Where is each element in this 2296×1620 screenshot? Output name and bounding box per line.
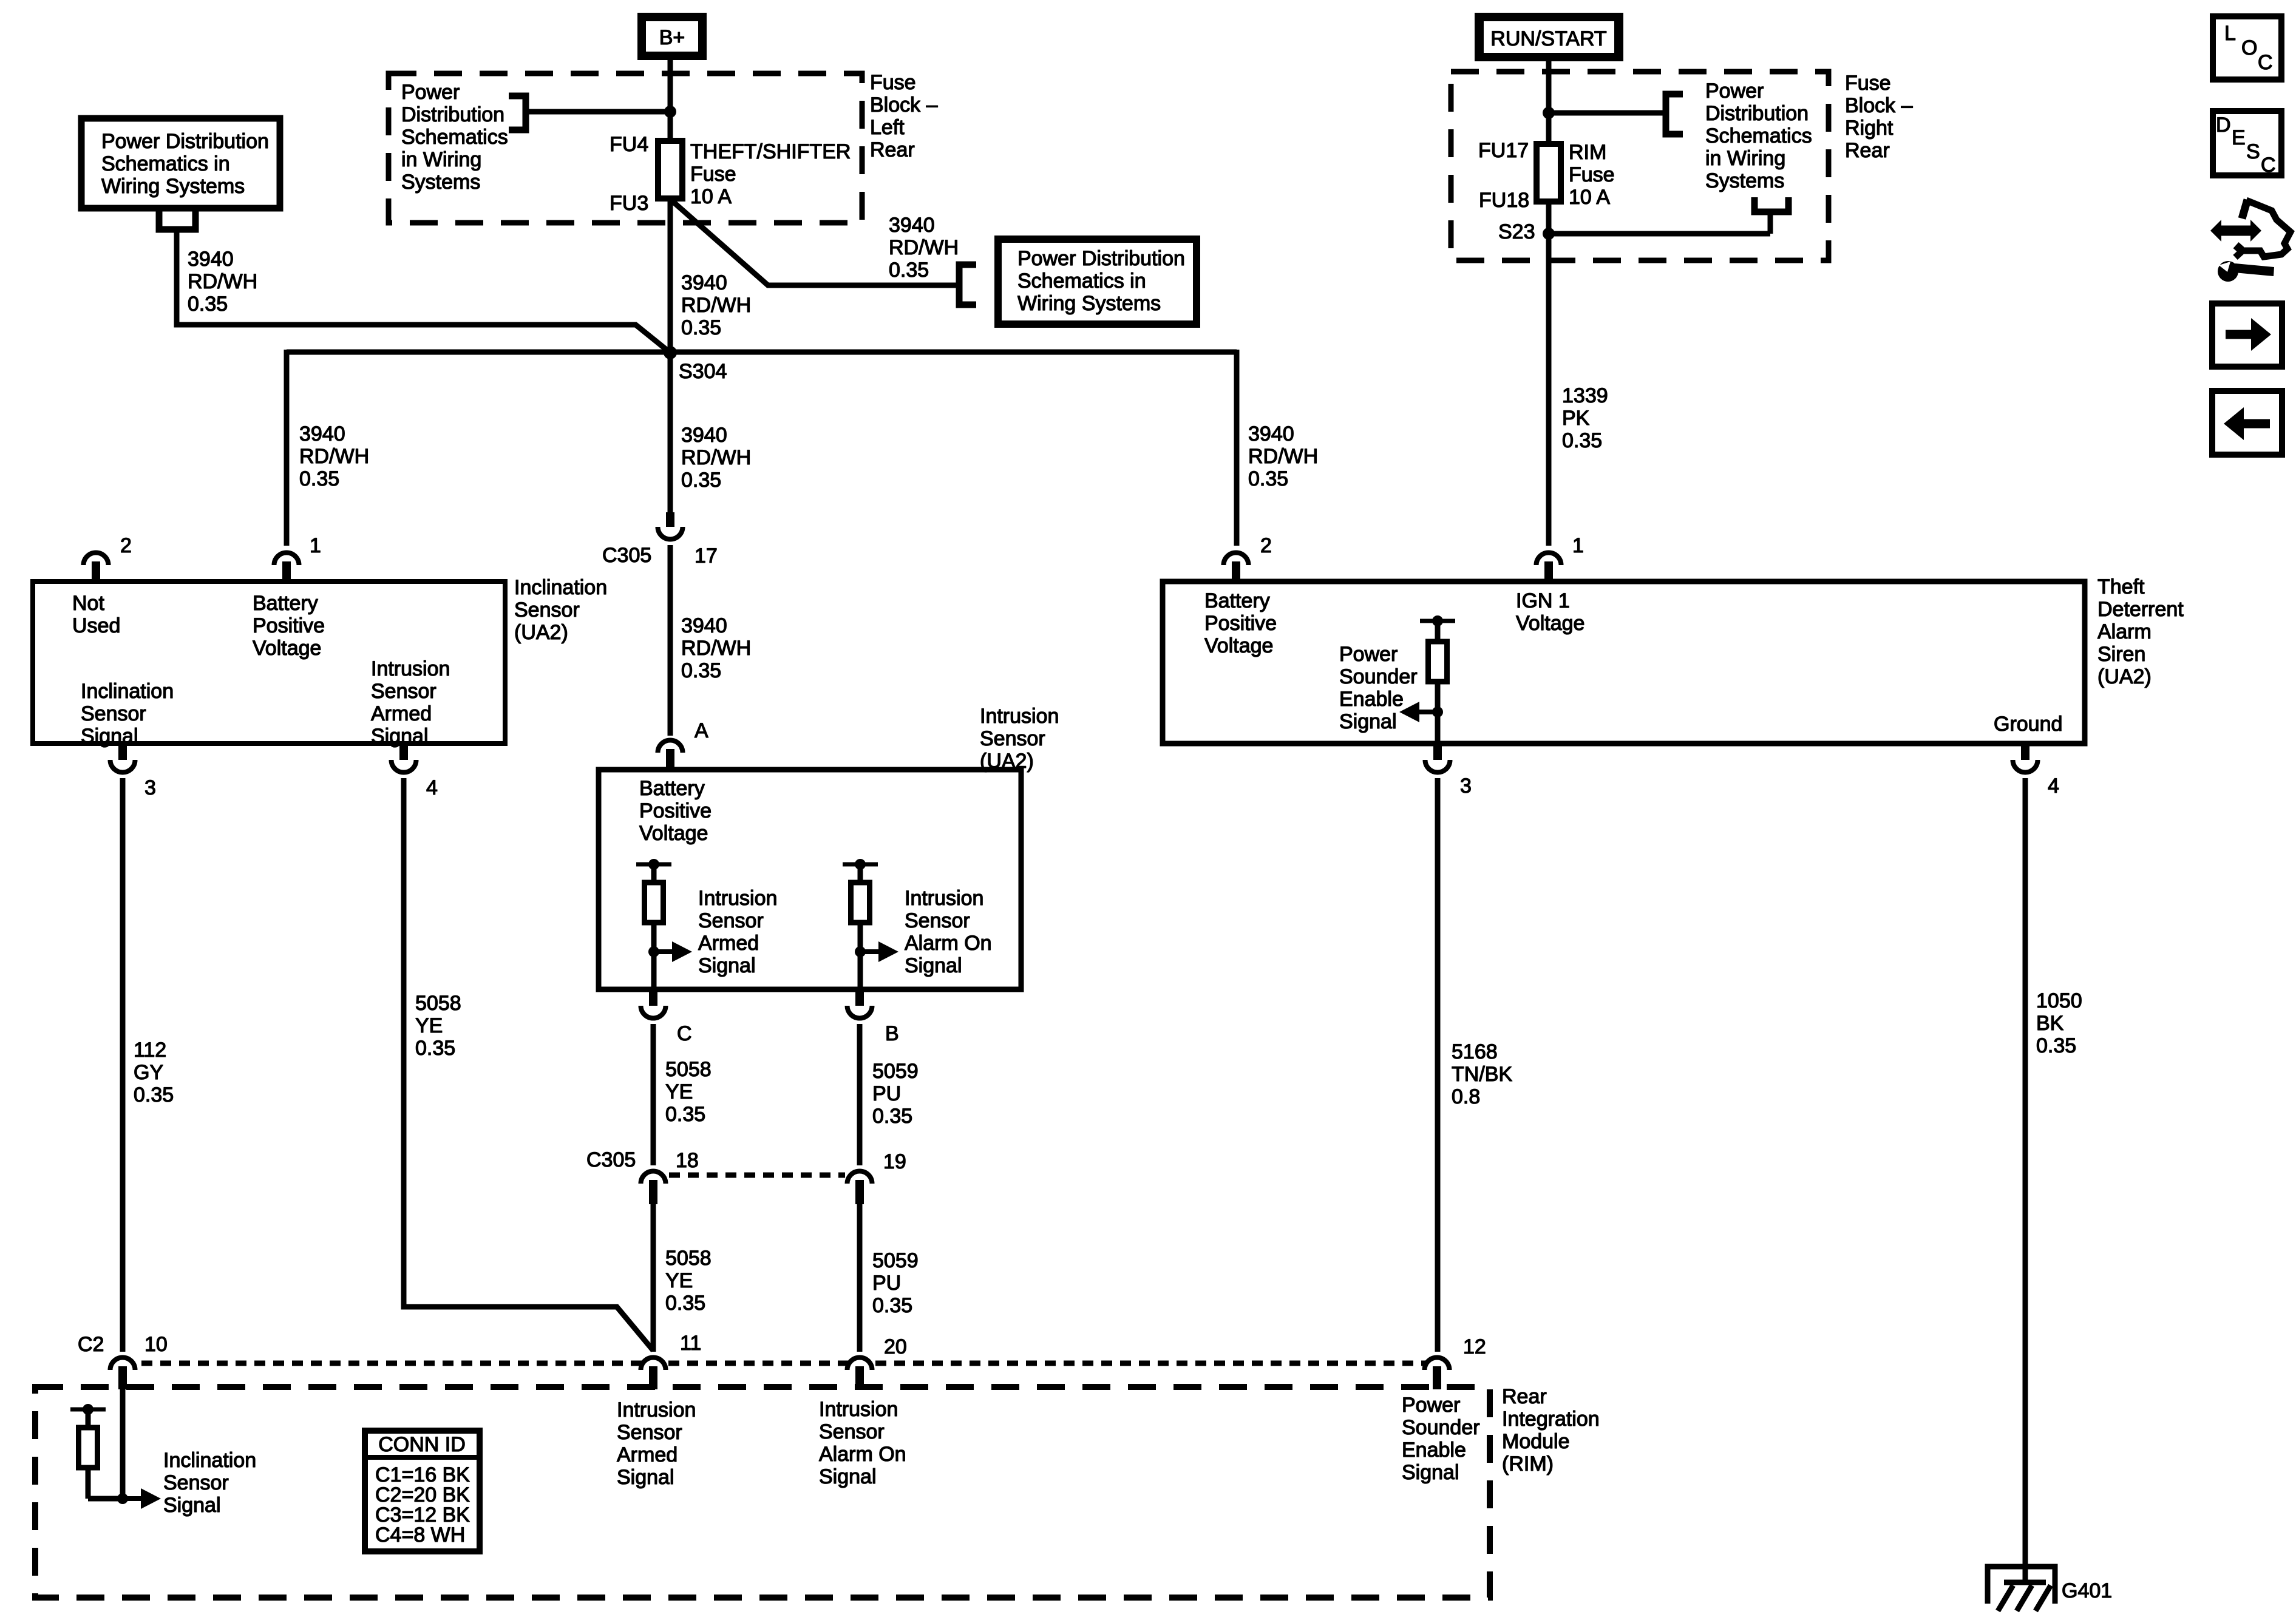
svg-text:C4=8 WH: C4=8 WH <box>375 1523 465 1547</box>
box Intrusion Sensor <box>599 770 1021 989</box>
junction + arrow inclination sensor signal <box>117 1488 161 1509</box>
connector pin 2 (inclination sensor, not used) <box>84 552 109 581</box>
label Power Sounder Enable Signal (siren box) <box>1339 643 1418 733</box>
label 5058 YE 0.35 (below C305-18) <box>665 1247 712 1315</box>
svg-text:5058: 5058 <box>665 1058 712 1081</box>
label 3940 RD/WH 0.35 (diagonal to mid box) <box>889 214 959 282</box>
resistor inclination sensor (RIM) <box>70 1404 123 1499</box>
dashed connector line C305 18-19 <box>669 1173 845 1178</box>
svg-text:FU17: FU17 <box>1478 139 1529 162</box>
svg-text:Sounder: Sounder <box>1402 1416 1480 1439</box>
svg-text:G401: G401 <box>2062 1579 2112 1602</box>
svg-text:S304: S304 <box>679 360 727 383</box>
label RIM Fuse 10 A <box>1569 141 1615 209</box>
label 1050 BK 0.35 <box>2036 989 2082 1057</box>
connector RIM pin 11 <box>641 1358 666 1390</box>
svg-text:3940: 3940 <box>681 271 727 294</box>
wire fuse FU3 to S304 <box>668 198 673 353</box>
svg-text:20: 20 <box>884 1335 907 1358</box>
svg-text:RD/WH: RD/WH <box>681 446 751 469</box>
svg-text:0.35: 0.35 <box>134 1083 174 1107</box>
fuse block left rear (dashed outline) <box>389 73 862 223</box>
svg-text:RIM: RIM <box>1569 141 1606 164</box>
svg-text:Armed: Armed <box>371 702 432 725</box>
svg-text:in Wiring: in Wiring <box>401 148 481 171</box>
svg-text:Sensor: Sensor <box>163 1471 229 1494</box>
svg-text:Alarm On: Alarm On <box>819 1443 906 1466</box>
label Fuse Block - Left Rear <box>870 71 938 161</box>
label 3940 RD/WH 0.35 (top-left wire) <box>188 248 257 316</box>
node RUN/START terminal <box>1475 13 1623 61</box>
svg-text:Theft: Theft <box>2097 575 2145 598</box>
svg-text:3940: 3940 <box>188 248 234 271</box>
svg-text:C2: C2 <box>78 1333 104 1356</box>
svg-text:L: L <box>2224 22 2236 45</box>
svg-text:GY: GY <box>134 1061 163 1084</box>
svg-text:17: 17 <box>695 544 718 568</box>
fuse FU4/FU3 THEFT/SHIFTER 10A <box>658 141 682 198</box>
svg-text:Signal: Signal <box>819 1465 877 1488</box>
connector C305 pin 18 <box>641 1171 666 1205</box>
svg-text:RD/WH: RD/WH <box>889 236 959 259</box>
node B+ terminal <box>637 13 707 60</box>
label Intrusion Sensor (UA2) <box>980 705 1059 773</box>
label Theft Deterrent Alarm Siren (UA2) <box>2097 575 2184 688</box>
connector pin C (intrusion sensor) <box>641 992 666 1018</box>
connector RIM pin 20 <box>847 1358 872 1390</box>
svg-text:Wiring Systems: Wiring Systems <box>101 175 245 198</box>
label Intrusion Sensor Alarm On Signal (RIM) <box>819 1398 906 1488</box>
svg-text:2: 2 <box>120 534 132 557</box>
label 3940 RD/WH 0.35 (above S304) <box>681 271 751 339</box>
svg-text:Intrusion: Intrusion <box>617 1398 696 1422</box>
svg-text:Sounder: Sounder <box>1339 665 1418 688</box>
svg-text:Sensor: Sensor <box>81 702 146 725</box>
svg-text:Power: Power <box>1705 80 1764 103</box>
wire rail down to siren pin 2 <box>1234 350 1240 546</box>
label 1339 PK 0.35 <box>1562 384 1608 452</box>
svg-text:Sensor: Sensor <box>514 598 580 622</box>
connector pin 4 (inclination sensor) <box>391 746 416 773</box>
svg-text:Distribution: Distribution <box>401 103 504 126</box>
svg-text:A: A <box>695 719 708 742</box>
label Power Distribution Schematics in Wiring Systems (left fuse block) <box>401 81 508 194</box>
svg-text:in Wiring: in Wiring <box>1705 147 1785 170</box>
svg-text:Block –: Block – <box>870 93 938 117</box>
bracket to mid box <box>959 265 976 305</box>
svg-text:RD/WH: RD/WH <box>299 445 369 468</box>
svg-text:C: C <box>677 1022 692 1045</box>
svg-text:Alarm: Alarm <box>2097 620 2152 643</box>
label 3940 RD/WH 0.35 (left drop) <box>299 422 369 490</box>
icon vehicle with wrench <box>2210 200 2291 282</box>
label Battery Positive Voltage (siren) <box>1204 589 1277 657</box>
resistor power sounder <box>1420 615 1455 712</box>
svg-text:Sensor: Sensor <box>819 1420 885 1443</box>
svg-text:TN/BK: TN/BK <box>1452 1063 1512 1086</box>
svg-text:FU4: FU4 <box>610 133 648 156</box>
svg-text:Battery: Battery <box>253 592 318 615</box>
svg-text:0.35: 0.35 <box>872 1105 912 1128</box>
svg-text:O: O <box>2241 36 2257 59</box>
wire pin 10 into RIM <box>120 1387 126 1499</box>
svg-text:Battery: Battery <box>639 777 705 800</box>
bracket under top-left box <box>159 211 195 229</box>
svg-text:Positive: Positive <box>1204 612 1277 635</box>
svg-text:Left: Left <box>870 116 905 139</box>
svg-text:0.35: 0.35 <box>2036 1034 2076 1057</box>
wire pin 3 inclination to C2 pin 10 <box>120 778 126 1352</box>
svg-text:Inclination: Inclination <box>81 680 174 703</box>
svg-text:E: E <box>2232 126 2246 149</box>
label 5058 YE 0.35 (above C305-18) <box>665 1058 712 1126</box>
svg-text:Power: Power <box>401 81 460 104</box>
svg-text:0.35: 0.35 <box>872 1294 912 1317</box>
svg-text:3940: 3940 <box>889 214 935 237</box>
svg-text:(UA2): (UA2) <box>514 621 568 644</box>
label Power Sounder Enable Signal (RIM) <box>1402 1394 1480 1484</box>
wire to power distribution bracket (left fuse block) <box>526 109 670 115</box>
box Inclination Sensor <box>33 581 505 744</box>
connector C305 pin 19 <box>847 1171 872 1205</box>
svg-text:Power Distribution: Power Distribution <box>101 130 269 153</box>
resistor intrusion alarm on <box>843 859 878 952</box>
svg-text:BK: BK <box>2036 1012 2064 1035</box>
svg-text:4: 4 <box>2048 774 2059 798</box>
svg-text:0.35: 0.35 <box>889 259 929 282</box>
svg-text:Armed: Armed <box>617 1443 678 1466</box>
junction + arrow intrusion alarm on signal <box>855 941 898 962</box>
svg-text:Alarm On: Alarm On <box>905 932 992 955</box>
svg-text:Deterrent: Deterrent <box>2097 598 2184 621</box>
svg-text:0.35: 0.35 <box>681 659 721 682</box>
svg-text:Signal: Signal <box>81 725 138 748</box>
svg-text:C305: C305 <box>602 544 651 567</box>
svg-text:Positive: Positive <box>639 799 712 822</box>
wire to bracket (right fuse block) <box>1549 110 1666 116</box>
svg-text:Rear: Rear <box>1845 139 1890 162</box>
svg-text:YE: YE <box>665 1269 693 1292</box>
svg-text:S: S <box>2246 140 2260 163</box>
svg-text:FU3: FU3 <box>610 192 648 215</box>
connector pin A (intrusion sensor) <box>658 741 683 771</box>
bracket to Power Distribution text (left fuse block) <box>509 96 526 130</box>
bracket to Power Distribution text (right fuse block) <box>1666 94 1683 134</box>
connector pin 2 (siren) <box>1223 552 1248 581</box>
svg-text:Power: Power <box>1339 643 1398 666</box>
svg-text:Intrusion: Intrusion <box>819 1398 898 1421</box>
svg-text:Voltage: Voltage <box>1516 612 1584 635</box>
bracket under right fuse block text <box>1754 197 1788 212</box>
label Intrusion Sensor Armed Signal (intrusion box) <box>698 887 777 977</box>
connector pin 3 (inclination sensor) <box>110 746 135 773</box>
box Rear Integration Module (dashed) <box>35 1387 1490 1598</box>
wire B+ to fuse FU4 <box>668 60 673 141</box>
svg-text:C: C <box>2261 154 2276 177</box>
svg-text:5058: 5058 <box>665 1247 712 1270</box>
label Rear Integration Module (RIM) <box>1502 1385 1600 1476</box>
ground G401 <box>1988 1567 2055 1611</box>
label IGN 1 Voltage (siren) <box>1516 589 1584 635</box>
node S23 <box>1543 228 1555 240</box>
svg-text:5059: 5059 <box>872 1249 919 1272</box>
svg-text:RD/WH: RD/WH <box>681 637 751 660</box>
svg-text:10 A: 10 A <box>1569 186 1610 209</box>
svg-text:1: 1 <box>310 534 321 557</box>
wire from top-left box down and to S304 <box>177 229 670 353</box>
svg-text:Schematics: Schematics <box>1705 124 1812 147</box>
icon arrow right <box>2212 303 2282 367</box>
label 5059 PU 0.35 (above pin 19) <box>872 1060 919 1128</box>
connector pin B (intrusion sensor) <box>847 992 872 1018</box>
wire pin 19 to RIM pin 20 <box>857 1202 863 1352</box>
wire rail down to inclination pin 1 <box>284 350 290 546</box>
svg-text:5058: 5058 <box>415 992 461 1015</box>
label Fuse Block - Right Rear <box>1845 72 1913 162</box>
svg-text:0.35: 0.35 <box>665 1103 705 1126</box>
label Not Used <box>72 592 120 637</box>
fuse FU17/FU18 RIM 10A <box>1537 144 1561 202</box>
connector RIM pin 12 <box>1425 1358 1450 1390</box>
svg-text:B: B <box>885 1022 899 1045</box>
wire pin 4 inclination to RIM pin 11 (jog) <box>404 778 653 1351</box>
label Intrusion Sensor Armed Signal (inclination box) <box>371 657 450 748</box>
wire down to pin C <box>651 952 657 988</box>
svg-text:C305: C305 <box>586 1148 636 1171</box>
svg-text:RUN/START: RUN/START <box>1490 27 1606 50</box>
svg-text:Fuse: Fuse <box>1569 163 1615 186</box>
wire main rail through S304 <box>287 350 1237 355</box>
svg-text:10 A: 10 A <box>690 185 732 208</box>
connector pin 1 (siren) <box>1537 552 1561 581</box>
label Intrusion Sensor Alarm On Signal (intrusion box) <box>905 887 992 977</box>
label Inclination Sensor Signal (inclination box) <box>81 680 174 748</box>
resistor intrusion armed <box>636 859 671 952</box>
svg-text:Block –: Block – <box>1845 94 1913 117</box>
svg-text:Positive: Positive <box>253 614 325 637</box>
svg-text:3940: 3940 <box>681 614 727 637</box>
svg-text:PU: PU <box>872 1082 901 1105</box>
box Theft Deterrent Alarm Siren <box>1163 581 2085 744</box>
svg-text:Right: Right <box>1845 117 1894 140</box>
svg-text:Fuse: Fuse <box>1845 72 1891 95</box>
svg-text:D: D <box>2216 114 2231 137</box>
label Power Distribution Schematics in Wiring Systems (right fuse block) <box>1705 80 1812 192</box>
node S304 <box>664 346 677 359</box>
svg-text:3: 3 <box>1460 774 1472 798</box>
svg-text:Inclination: Inclination <box>514 576 607 599</box>
svg-text:2: 2 <box>1260 534 1272 557</box>
svg-text:B+: B+ <box>659 26 685 49</box>
svg-text:Systems: Systems <box>401 171 480 194</box>
svg-text:Fuse: Fuse <box>870 71 916 94</box>
connector pin 1 (inclination sensor) <box>274 552 299 581</box>
svg-text:Sensor: Sensor <box>980 727 1045 750</box>
wire down to siren pin 3 <box>1435 712 1441 741</box>
svg-text:Voltage: Voltage <box>1204 634 1273 657</box>
svg-text:0.35: 0.35 <box>1248 467 1288 490</box>
svg-text:Not: Not <box>72 592 104 615</box>
svg-text:Integration: Integration <box>1502 1408 1600 1431</box>
CONN ID table <box>365 1431 480 1551</box>
svg-text:1: 1 <box>1572 534 1584 557</box>
svg-text:0.35: 0.35 <box>415 1037 455 1060</box>
svg-text:Enable: Enable <box>1402 1439 1466 1462</box>
svg-text:YE: YE <box>665 1080 693 1103</box>
svg-text:Used: Used <box>72 614 120 637</box>
svg-text:IGN 1: IGN 1 <box>1516 589 1570 612</box>
label 5168 TN/BK 0.8 <box>1452 1040 1512 1108</box>
connector C305 pin 17 <box>658 512 683 539</box>
svg-text:0.35: 0.35 <box>681 469 721 492</box>
svg-text:Signal: Signal <box>905 954 962 977</box>
wire C305-17 to intrusion sensor pin A <box>668 545 673 736</box>
svg-text:Signal: Signal <box>1339 710 1397 733</box>
svg-text:PU: PU <box>872 1272 901 1295</box>
svg-text:Wiring Systems: Wiring Systems <box>1017 292 1161 315</box>
svg-text:0.35: 0.35 <box>665 1292 705 1315</box>
svg-text:Rear: Rear <box>870 138 915 161</box>
svg-text:Signal: Signal <box>1402 1461 1459 1484</box>
label 5059 PU 0.35 (below pin 19) <box>872 1249 919 1317</box>
box Power Distribution Schematics in Wiring Systems (mid) <box>998 239 1197 324</box>
wire down to pin B <box>858 952 863 988</box>
wire S304 down to C305 pin 17 <box>668 353 673 512</box>
wire S23 <box>1549 231 1770 237</box>
svg-text:RD/WH: RD/WH <box>681 294 751 317</box>
svg-text:THEFT/SHIFTER: THEFT/SHIFTER <box>690 140 851 163</box>
svg-text:Fuse: Fuse <box>690 163 736 186</box>
svg-text:Siren: Siren <box>2097 643 2145 666</box>
wire pin B to C305 pin 19 <box>857 1024 863 1165</box>
label Inclination Sensor Signal (RIM) <box>163 1449 256 1517</box>
svg-text:19: 19 <box>883 1150 906 1173</box>
label Intrusion Sensor Armed Signal (RIM) <box>617 1398 696 1489</box>
fuse block right rear (dashed outline) <box>1451 72 1829 260</box>
svg-text:3: 3 <box>144 776 156 799</box>
svg-text:Voltage: Voltage <box>639 822 708 845</box>
label 3940 RD/WH 0.35 (right drop) <box>1248 422 1318 490</box>
svg-text:(UA2): (UA2) <box>2097 665 2152 688</box>
svg-text:0.35: 0.35 <box>1562 429 1602 452</box>
svg-text:Distribution: Distribution <box>1705 102 1809 125</box>
svg-text:(RIM): (RIM) <box>1502 1452 1554 1476</box>
svg-text:12: 12 <box>1463 1335 1486 1358</box>
icon LOC <box>2213 16 2281 80</box>
svg-text:Signal: Signal <box>698 954 756 977</box>
svg-text:Intrusion: Intrusion <box>980 705 1059 728</box>
label 3940 RD/WH 0.35 (below S304) <box>681 424 751 492</box>
label 3940 RD/WH 0.35 (to pin A) <box>681 614 751 682</box>
wire RUN/START down to fuse FU17 <box>1546 61 1552 144</box>
svg-text:Inclination: Inclination <box>163 1449 256 1472</box>
svg-text:YE: YE <box>415 1014 443 1037</box>
svg-text:112: 112 <box>134 1039 166 1062</box>
svg-text:Module: Module <box>1502 1430 1570 1453</box>
svg-text:Signal: Signal <box>617 1466 674 1489</box>
svg-text:Armed: Armed <box>698 932 759 955</box>
svg-text:1339: 1339 <box>1562 384 1608 407</box>
svg-text:11: 11 <box>680 1332 701 1355</box>
junction + arrow intrusion armed signal <box>648 941 692 962</box>
label Inclination Sensor (UA2) <box>514 576 607 644</box>
svg-text:10: 10 <box>144 1333 168 1356</box>
junction + arrow power sounder enable signal <box>1399 702 1443 722</box>
icon arrow left <box>2212 391 2282 455</box>
wire siren pin 4 to G401 <box>2023 778 2028 1582</box>
svg-text:RD/WH: RD/WH <box>188 270 257 293</box>
svg-text:Ground: Ground <box>1994 713 2062 736</box>
svg-text:0.35: 0.35 <box>681 316 721 339</box>
svg-text:S23: S23 <box>1498 220 1535 243</box>
label Battery Positive Voltage (intrusion) <box>639 777 712 845</box>
svg-text:Sensor: Sensor <box>371 680 436 703</box>
svg-text:RD/WH: RD/WH <box>1248 445 1318 468</box>
svg-text:PK: PK <box>1562 407 1590 430</box>
wire pin C to C305 pin 18 <box>651 1024 656 1165</box>
svg-text:18: 18 <box>676 1149 699 1172</box>
junction dot above fuse <box>664 106 676 118</box>
svg-text:Battery: Battery <box>1204 589 1270 612</box>
svg-text:Systems: Systems <box>1705 169 1784 192</box>
svg-text:0.35: 0.35 <box>188 293 228 316</box>
svg-text:Intrusion: Intrusion <box>698 887 777 910</box>
svg-text:5059: 5059 <box>872 1060 919 1083</box>
wire FU3 to Power Distribution Schematics (mid box) <box>671 200 959 285</box>
svg-text:Intrusion: Intrusion <box>371 657 450 680</box>
dotted connector row C2 <box>123 1361 1437 1366</box>
svg-text:3940: 3940 <box>1248 422 1294 446</box>
svg-text:5168: 5168 <box>1452 1040 1498 1063</box>
icon DESC <box>2213 111 2281 177</box>
svg-text:Sensor: Sensor <box>698 909 764 932</box>
svg-text:(UA2): (UA2) <box>980 750 1034 773</box>
label 112 GY 0.35 <box>134 1039 174 1107</box>
svg-text:1050: 1050 <box>2036 989 2082 1012</box>
svg-text:3940: 3940 <box>299 422 345 446</box>
svg-text:0.35: 0.35 <box>299 467 339 490</box>
svg-text:Voltage: Voltage <box>253 637 321 660</box>
svg-text:Sensor: Sensor <box>617 1421 682 1444</box>
svg-text:Schematics in: Schematics in <box>101 152 230 175</box>
svg-text:Schematics in: Schematics in <box>1017 269 1146 293</box>
svg-text:Rear: Rear <box>1502 1385 1547 1408</box>
wire siren pin 3 to RIM pin 12 <box>1435 778 1441 1352</box>
svg-text:CONN ID: CONN ID <box>378 1433 466 1456</box>
svg-text:Power: Power <box>1402 1394 1460 1417</box>
connector pin 3 (siren) <box>1425 746 1450 773</box>
box Power Distribution Schematics in Wiring Systems (top-left) <box>81 118 280 208</box>
label 5058 YE 0.35 (pin 4 wire) <box>415 992 461 1060</box>
connector C2 pin 10 <box>110 1357 135 1389</box>
svg-text:FU18: FU18 <box>1479 189 1529 212</box>
svg-text:0.8: 0.8 <box>1452 1085 1480 1108</box>
svg-text:Enable: Enable <box>1339 688 1404 711</box>
wire C305-18 to RIM pin 11 <box>651 1202 656 1352</box>
svg-text:Intrusion: Intrusion <box>905 887 983 910</box>
label THEFT/SHIFTER Fuse 10 A <box>690 140 851 208</box>
svg-text:3940: 3940 <box>681 424 727 447</box>
svg-text:C: C <box>2258 51 2273 74</box>
label Battery Positive Voltage (inclination) <box>253 592 325 660</box>
svg-text:Schematics: Schematics <box>401 126 508 149</box>
svg-text:Signal: Signal <box>371 725 429 748</box>
svg-text:Power Distribution: Power Distribution <box>1017 247 1185 270</box>
junction dot above FU17 <box>1543 107 1555 119</box>
connector pin 4 (siren) <box>2013 746 2038 773</box>
wire FU18 to siren pin 1 <box>1546 200 1552 546</box>
svg-text:Signal: Signal <box>163 1494 221 1517</box>
